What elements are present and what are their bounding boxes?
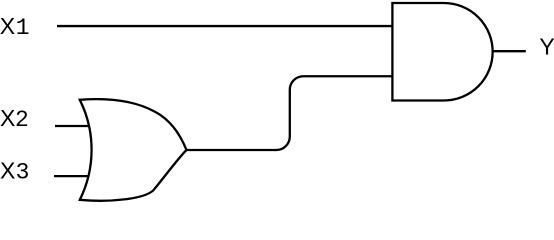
svg-text:X1: X1: [0, 13, 30, 41]
svg-text:X2: X2: [0, 105, 29, 133]
svg-text:Y: Y: [539, 34, 554, 60]
svg-text:X3: X3: [0, 157, 29, 185]
